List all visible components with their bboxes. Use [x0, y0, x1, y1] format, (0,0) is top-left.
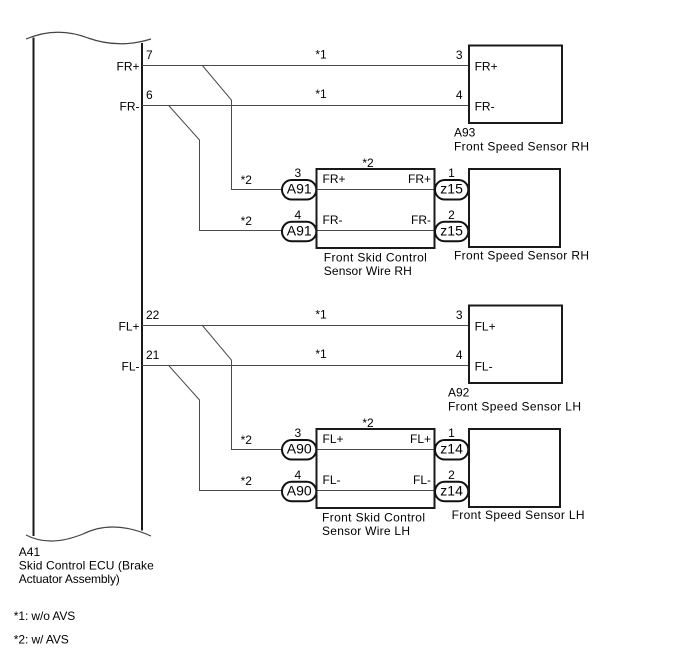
svg-text:Sensor Wire RH: Sensor Wire RH	[324, 264, 412, 278]
svg-text:FL-: FL-	[475, 360, 493, 374]
svg-text:*2: w/ AVS: *2: w/ AVS	[14, 633, 69, 647]
wire FL- pin 21 to A92 pin 4	[142, 365, 469, 367]
sensor box LH (AVS)	[469, 429, 560, 507]
connector A90 pin4 oval	[282, 482, 316, 502]
svg-text:z14: z14	[440, 482, 463, 498]
svg-text:*2: *2	[241, 474, 253, 488]
svg-text:FR+: FR+	[475, 60, 498, 74]
svg-text:FR-: FR-	[323, 213, 343, 227]
svg-text:4: 4	[456, 348, 463, 362]
svg-text:3: 3	[294, 426, 301, 440]
connector z14 pin2 oval	[435, 482, 468, 502]
svg-text:FL+: FL+	[410, 432, 431, 446]
svg-text:FL+: FL+	[475, 320, 496, 334]
svg-text:3: 3	[456, 48, 463, 62]
svg-text:22: 22	[146, 308, 160, 322]
svg-text:7: 7	[146, 48, 153, 62]
svg-text:*2: *2	[241, 433, 253, 447]
ECU connector A41 right edge	[141, 43, 143, 531]
svg-text:Front Skid Control: Front Skid Control	[324, 250, 427, 264]
svg-text:z15: z15	[440, 222, 463, 238]
svg-text:*1: *1	[315, 87, 327, 101]
svg-text:2: 2	[448, 208, 455, 222]
svg-text:Sensor Wire LH: Sensor Wire LH	[322, 524, 410, 538]
svg-text:FR+: FR+	[323, 172, 346, 186]
sensor box RH (AVS)	[469, 169, 560, 247]
connector A91 pin4 oval	[282, 222, 316, 242]
sensor A93 box	[469, 46, 562, 124]
svg-text:4: 4	[456, 88, 463, 102]
svg-text:FL-: FL-	[413, 473, 431, 487]
svg-text:*2: *2	[241, 214, 253, 228]
svg-text:FR+: FR+	[408, 172, 431, 186]
ECU torn top edge	[26, 32, 151, 44]
svg-text:FL-: FL-	[323, 473, 341, 487]
svg-text:6: 6	[146, 88, 153, 102]
svg-text:*2: *2	[362, 156, 374, 170]
wire harness box RH	[317, 169, 435, 248]
svg-text:A91: A91	[287, 181, 312, 197]
svg-text:A41: A41	[19, 545, 41, 559]
svg-text:FL-: FL-	[122, 360, 140, 374]
connector z15 pin1 oval	[435, 180, 468, 200]
wire FR- pin 6 to A93 pin 4	[142, 105, 469, 107]
svg-text:FR-: FR-	[411, 213, 431, 227]
svg-text:4: 4	[294, 468, 301, 482]
svg-text:*1: *1	[315, 347, 327, 361]
ECU connector A41 left edge	[33, 38, 35, 537]
svg-text:A90: A90	[287, 441, 312, 457]
svg-text:4: 4	[294, 208, 301, 222]
svg-text:1: 1	[448, 426, 455, 440]
svg-text:Front Speed Sensor RH: Front Speed Sensor RH	[454, 140, 589, 154]
svg-text:A90: A90	[287, 482, 312, 498]
svg-text:A91: A91	[287, 222, 312, 238]
svg-text:3: 3	[294, 166, 301, 180]
svg-text:3: 3	[456, 308, 463, 322]
svg-text:Actuator Assembly): Actuator Assembly)	[19, 572, 120, 586]
connector A91 pin3 oval	[282, 180, 316, 200]
svg-text:*2: *2	[362, 416, 374, 430]
svg-text:1: 1	[448, 166, 455, 180]
svg-text:Front Skid Control: Front Skid Control	[322, 510, 425, 524]
wire FL+ branch to A90 pin 3	[202, 326, 469, 450]
svg-text:FL+: FL+	[118, 320, 139, 334]
sensor A92 box	[469, 306, 562, 384]
svg-text:FR+: FR+	[116, 60, 139, 74]
wire FR+ pin 7 to A93 pin 3	[142, 65, 469, 67]
connector z15 pin2 oval	[435, 222, 468, 242]
svg-text:*2: *2	[241, 173, 253, 187]
svg-text:2: 2	[448, 468, 455, 482]
svg-text:*1: *1	[315, 47, 327, 61]
wire FR+ branch to A91 pin 3	[202, 66, 469, 190]
svg-text:Front Speed Sensor LH: Front Speed Sensor LH	[448, 400, 581, 414]
svg-text:Front Speed Sensor RH: Front Speed Sensor RH	[454, 249, 589, 263]
wire FL- branch to A90 pin 4	[169, 366, 469, 491]
connector z14 pin1 oval	[435, 440, 468, 460]
svg-text:Skid Control ECU (Brake: Skid Control ECU (Brake	[19, 558, 154, 572]
svg-text:z14: z14	[440, 441, 463, 457]
ECU torn bottom edge	[26, 527, 151, 541]
wire harness box LH	[317, 429, 435, 508]
svg-text:21: 21	[146, 348, 160, 362]
svg-text:Front Speed Sensor LH: Front Speed Sensor LH	[452, 508, 585, 522]
svg-text:FR-: FR-	[475, 100, 495, 114]
svg-text:A92: A92	[448, 386, 470, 400]
connector A90 pin3 oval	[282, 440, 316, 460]
svg-text:*1: w/o AVS: *1: w/o AVS	[14, 609, 76, 623]
svg-text:A93: A93	[454, 126, 476, 140]
svg-text:FR-: FR-	[120, 100, 140, 114]
svg-text:FL+: FL+	[323, 432, 344, 446]
wire FR- branch to A91 pin 4	[169, 106, 469, 231]
wire FL+ pin 22 to A92 pin 3	[142, 325, 469, 327]
svg-text:z15: z15	[440, 181, 463, 197]
svg-text:*1: *1	[315, 307, 327, 321]
